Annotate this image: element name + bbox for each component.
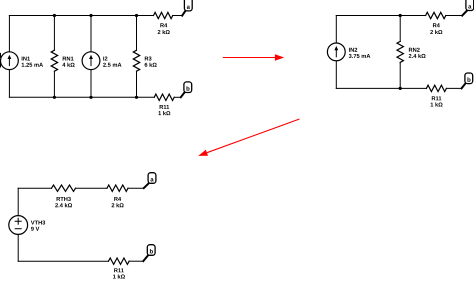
wire R11 to terminal b circuit 3 (129, 260, 143, 262)
wire IN2 bottom lead (335, 61, 337, 89)
current source IN2 3.75 mA (327, 43, 370, 61)
current source IN1 1.25 mA (1, 52, 44, 70)
terminal a circuit 3 (144, 173, 156, 188)
wire top rail circuit 1 (9, 15, 153, 17)
wire VTH3 bottom lead (17, 234, 19, 261)
terminal a circuit 2 (462, 0, 473, 16)
wire top rail circuit 2 (336, 15, 425, 17)
junction (53, 14, 56, 17)
wire R11 to terminal b circuit 2 (446, 87, 461, 89)
resistor R4 2 kOhm circuit 2 (426, 12, 446, 34)
resistor RN2 2.4 kOhm (397, 16, 426, 89)
junction (89, 14, 92, 17)
wire stub cropped at left edge (0, 62, 1, 67)
voltage source VTH3 9 V (9, 216, 45, 235)
resistor R4 2 kOhm circuit 1 (154, 12, 173, 34)
wire VTH3 top lead (17, 188, 19, 215)
resistor RN1 4 kOhm (51, 16, 74, 98)
wire top rail circuit 3 middle (76, 187, 108, 189)
wire I2 bottom lead (90, 70, 92, 98)
wire bottom rail circuit 1 (9, 96, 154, 98)
terminal b circuit 2 (462, 73, 473, 88)
arrow circuit 2 to circuit 3 (197, 119, 299, 159)
wire stub cropped at left edge (0, 54, 1, 57)
wire top rail circuit 3 left (18, 187, 51, 189)
resistor R11 1 kOhm circuit 2 (426, 85, 446, 106)
junction (399, 87, 402, 90)
resistor R3 6 kOhm (133, 16, 156, 98)
junction (53, 96, 56, 99)
resistor R11 1 kOhm circuit 1 (154, 94, 174, 115)
resistor R4 2 kOhm circuit 3 (107, 185, 128, 207)
junction (399, 14, 402, 17)
wire R4 to terminal a circuit 3 (128, 187, 144, 189)
current source I2 2.5 mA (82, 52, 121, 70)
resistor R11 1 kOhm circuit 3 (109, 258, 130, 279)
wire bottom rail circuit 3 (18, 260, 108, 262)
terminal b circuit 3 (143, 245, 155, 261)
terminal a circuit 1 (182, 0, 192, 16)
arrow circuit 1 to circuit 2 (223, 54, 284, 60)
wire IN1 top lead (8, 16, 10, 52)
wire IN1 bottom lead (8, 70, 10, 98)
junction (135, 96, 138, 99)
wire bottom rail circuit 2 (336, 87, 426, 89)
resistor RTH3 2.4 kOhm (52, 185, 76, 207)
wire I2 top lead (90, 16, 92, 52)
wire R4 to terminal a circuit 1 (173, 15, 183, 17)
wire R11 to terminal b circuit 1 (174, 96, 181, 98)
junction (89, 96, 92, 99)
terminal b circuit 1 (181, 82, 192, 97)
junction (135, 14, 138, 17)
wire IN2 top lead (335, 16, 337, 44)
wire R4 to terminal a circuit 2 (446, 15, 463, 17)
